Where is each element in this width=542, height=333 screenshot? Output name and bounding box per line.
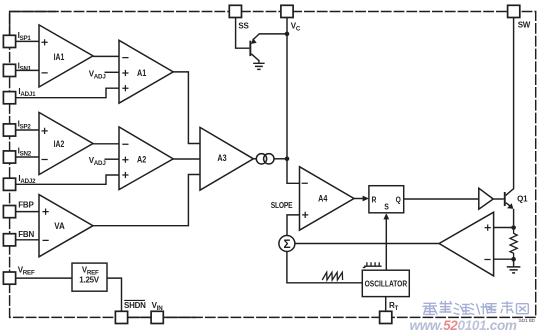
wire IA2 out <box>93 143 119 145</box>
pin VIN <box>151 301 163 324</box>
wire FBP-VA <box>16 211 39 213</box>
resistor sense <box>510 228 517 260</box>
wire IADJ1-A1 <box>16 88 119 98</box>
current source symbol <box>256 154 274 164</box>
wire A1 out to A3 <box>173 72 200 144</box>
svg-text:SS: SS <box>238 21 249 30</box>
svg-text:SHDN: SHDN <box>124 301 146 310</box>
wire VC net <box>287 18 300 184</box>
label VADJ A2 <box>89 156 119 167</box>
svg-text:IA2: IA2 <box>54 139 65 149</box>
svg-text:3421 BD: 3421 BD <box>519 318 535 323</box>
pin ISP1 <box>3 31 31 48</box>
svg-text:A2: A2 <box>137 155 146 165</box>
wire comp minus <box>494 258 514 260</box>
svg-text:FBP: FBP <box>18 200 34 209</box>
pin ISP2 <box>3 120 31 137</box>
op-amp IA2 <box>39 112 93 174</box>
pin FBN <box>3 230 34 246</box>
oscillator block <box>362 270 409 296</box>
block VREF 1.25V <box>72 263 107 291</box>
wire Q to driver <box>404 198 479 200</box>
summing node sigma <box>279 236 295 252</box>
wire block to SHDN pin <box>107 278 122 311</box>
svg-text:VA: VA <box>54 221 65 231</box>
svg-text:A1: A1 <box>137 68 146 78</box>
junction VC clamp <box>285 32 290 37</box>
op-amp VA <box>39 195 93 257</box>
wire sigma to oscillator <box>287 252 362 283</box>
wire A4 plus input <box>287 215 300 236</box>
svg-text:SLOPE: SLOPE <box>271 201 293 210</box>
wire VREF pin to block <box>16 277 72 279</box>
pin SS <box>229 5 249 30</box>
driver buffer <box>479 188 493 209</box>
svg-text:IA1: IA1 <box>54 52 65 62</box>
svg-text:1.25V: 1.25V <box>79 276 100 285</box>
op-amp A3 <box>200 127 253 190</box>
op-amp A2 <box>119 127 173 190</box>
pin VC <box>281 5 301 32</box>
wire IA1 out <box>93 55 119 57</box>
junction sense bottom <box>511 257 516 262</box>
wire current source to VC net <box>274 158 287 160</box>
op-amp IA1 <box>39 25 93 87</box>
wire ISN2-IA2 <box>16 156 39 158</box>
svg-text:Q: Q <box>396 196 402 205</box>
transistor Q1 <box>493 18 528 226</box>
wire oscillator to S <box>383 213 389 270</box>
svg-text:Σ: Σ <box>283 237 290 251</box>
svg-text:Q1: Q1 <box>517 194 528 203</box>
op-amp A4 <box>300 167 355 231</box>
wire VA out to A3 <box>93 175 200 226</box>
wire A3 out to current source <box>253 158 256 160</box>
pin FBP <box>3 200 34 217</box>
wire oscillator to RT <box>385 297 387 312</box>
wire ISP2-IA2 <box>16 129 39 131</box>
wire A4 out to latch R <box>354 196 369 202</box>
wire comp plus <box>494 227 514 229</box>
wire ISN1-IA1 <box>16 69 39 71</box>
svg-text:A4: A4 <box>318 193 327 203</box>
junction VC A3out <box>285 157 290 162</box>
svg-text:R: R <box>371 196 376 205</box>
comparator current sense <box>439 212 494 276</box>
label VADJ A1 <box>89 70 119 81</box>
svg-text:A3: A3 <box>217 153 226 163</box>
op-amp A1 <box>119 40 173 103</box>
wire comparator out to sigma <box>295 243 439 245</box>
pin ISN1 <box>3 62 31 77</box>
pin SW <box>508 5 531 29</box>
pin IADJ1 <box>3 87 36 104</box>
svg-text:OSCILLATOR: OSCILLATOR <box>365 280 408 289</box>
ground sense <box>507 259 521 273</box>
wire A2 out to A3 <box>173 158 200 160</box>
pin SHDN <box>115 300 146 323</box>
transistor soft-start clamp <box>236 18 287 64</box>
clock pulse symbol <box>363 262 382 267</box>
svg-text:S: S <box>384 203 389 212</box>
wire ISP1-IA1 <box>16 40 39 42</box>
svg-text:FBN: FBN <box>18 230 34 239</box>
pin VREF <box>3 266 35 285</box>
svg-text:SW: SW <box>518 21 531 30</box>
svg-text:www.520101.com: www.520101.com <box>410 318 517 333</box>
pin IADJ2 <box>3 174 36 191</box>
junction sense top <box>511 225 516 230</box>
ground soft-start <box>253 63 264 69</box>
pin ISN2 <box>3 147 31 164</box>
flip-flop RS latch <box>369 186 404 213</box>
pin RT <box>380 301 399 324</box>
sawtooth symbol <box>322 272 342 280</box>
wire FBN-VA <box>16 239 39 241</box>
wire IADJ2-A2 <box>16 175 119 184</box>
